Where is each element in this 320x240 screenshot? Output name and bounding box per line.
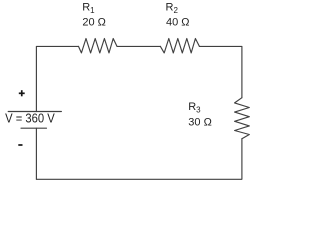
wire battery negative to bottom-left corner xyxy=(35,128,37,179)
wire R3 to bottom-right corner to bottom-left xyxy=(36,139,242,180)
wire R2 to top-right corner down to R3 xyxy=(199,46,242,97)
resistor R1 xyxy=(79,39,118,53)
svg-text:40 Ω: 40 Ω xyxy=(166,17,190,29)
svg-text:30 Ω: 30 Ω xyxy=(188,116,212,128)
battery negative plate (short) xyxy=(21,127,47,129)
minus terminal sign xyxy=(18,144,22,146)
svg-text:R2: R2 xyxy=(166,1,179,15)
svg-text:V = 360 V: V = 360 V xyxy=(5,112,55,126)
wire R1 to R2 xyxy=(117,45,160,47)
wire top-left corner to R1 xyxy=(36,46,78,111)
svg-text:R3: R3 xyxy=(188,101,201,115)
battery positive plate (long) xyxy=(8,111,61,113)
svg-text:R1: R1 xyxy=(82,1,95,15)
plus terminal sign xyxy=(19,90,25,96)
resistor R2 xyxy=(160,39,199,53)
resistor R3 xyxy=(235,98,250,139)
svg-text:20 Ω: 20 Ω xyxy=(82,17,106,29)
